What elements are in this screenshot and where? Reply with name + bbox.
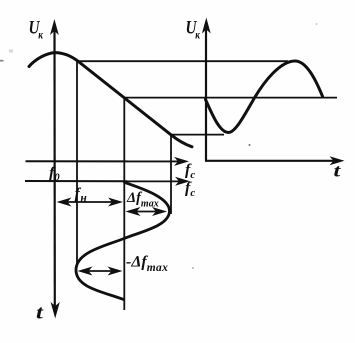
fc axis 2 arrowhead <box>175 177 190 186</box>
f axis 1 (upper fc axis) <box>26 160 181 162</box>
left axis up arrowhead <box>50 19 59 35</box>
vertical projection line fн <box>123 98 125 310</box>
-dfmax measure arrow <box>81 270 119 272</box>
speck <box>9 50 13 53</box>
speck <box>249 144 251 146</box>
FM input sine (time downward) <box>76 182 170 299</box>
speck <box>192 267 194 269</box>
f axis 2 (lower fc axis) <box>25 180 181 182</box>
left U axis (vertical, arrows both ends) <box>53 28 55 308</box>
right t axis <box>205 160 336 162</box>
vertical projection line f0+df <box>170 135 172 214</box>
vertical projection line f0-df <box>76 61 78 264</box>
svg-text:t: t <box>334 161 342 181</box>
dfmax measure arrow <box>128 211 164 213</box>
svg-text:t: t <box>36 301 44 323</box>
right t axis arrowhead <box>330 156 345 165</box>
mid projection line (mean U level) <box>125 97 337 99</box>
low projection line (min U level) <box>172 134 224 136</box>
left axis down arrowhead <box>51 302 60 319</box>
speck <box>316 23 318 25</box>
output sine <box>206 61 323 133</box>
speck <box>0 60 4 62</box>
right axis up arrowhead <box>202 18 211 34</box>
fc axis 1 arrowhead <box>174 157 189 166</box>
discriminator curve <box>29 53 192 147</box>
fн measure arrow <box>60 201 119 203</box>
right U axis <box>205 26 207 161</box>
top projection line (max U level) <box>78 60 288 62</box>
